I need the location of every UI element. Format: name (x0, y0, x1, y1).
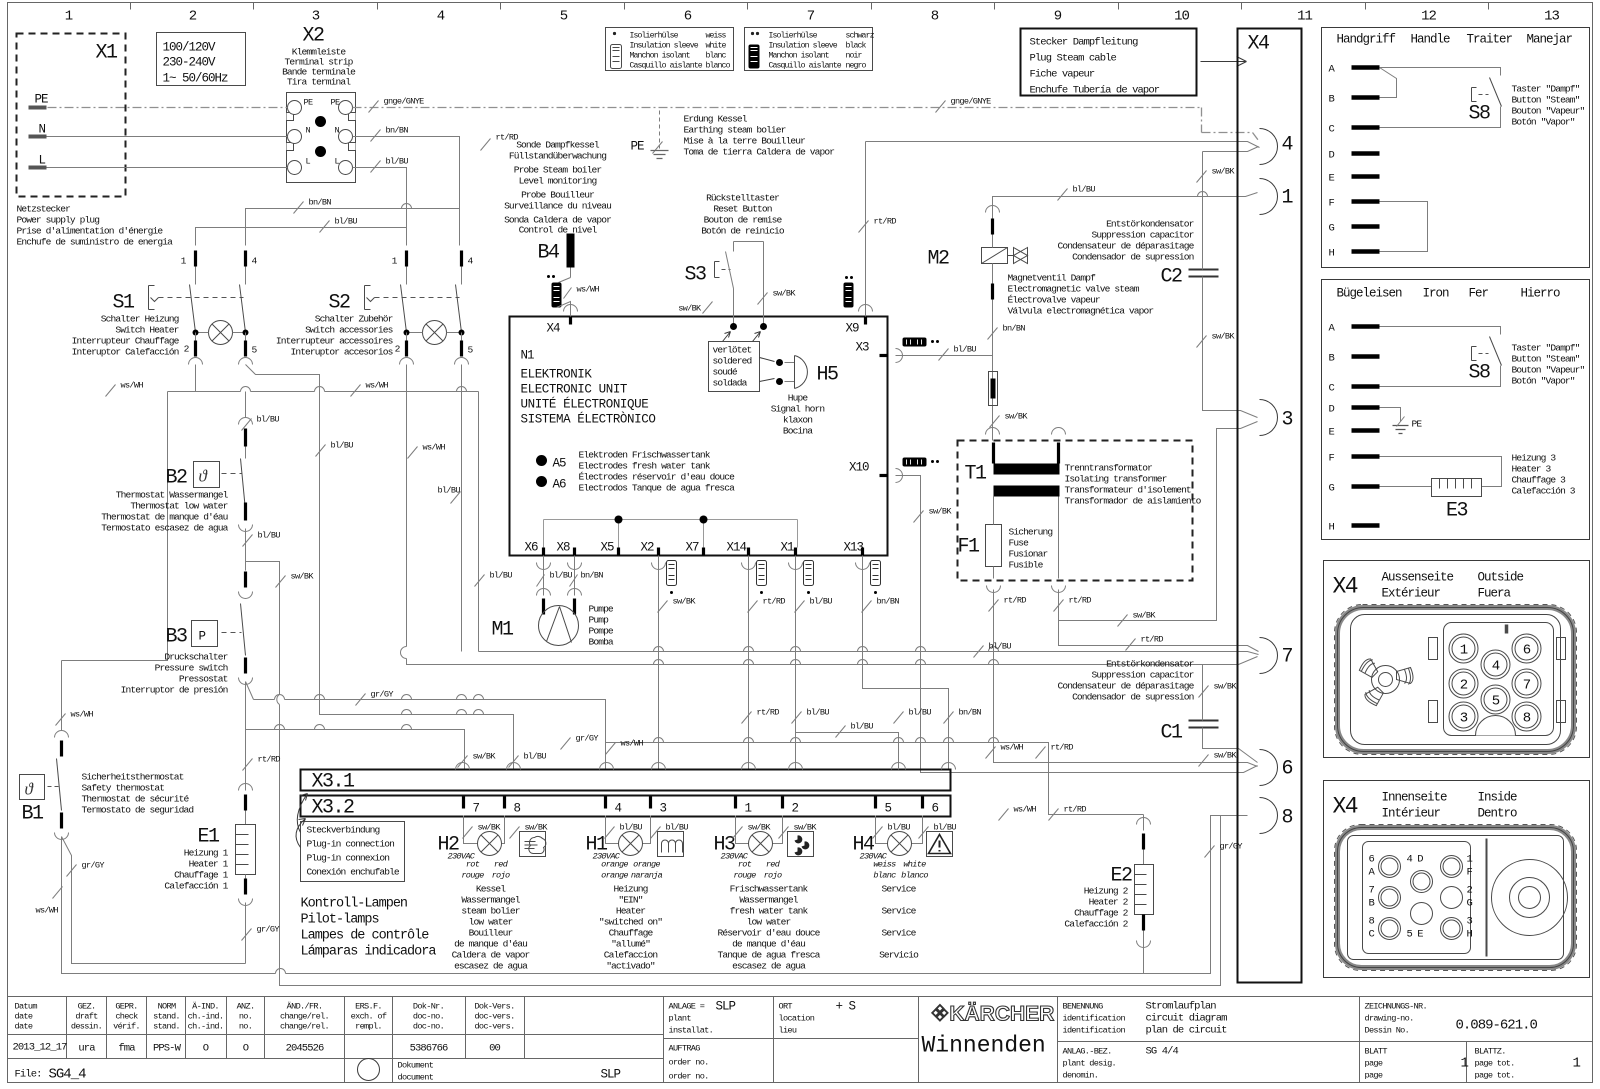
svg-text:gnge/GNYE: gnge/GNYE (384, 97, 425, 107)
svg-text:6: 6 (684, 9, 692, 25)
svg-text:white: white (903, 860, 926, 870)
wire gr/GY from B3 (246, 682, 1144, 815)
svg-text:Condensateur de déparasitage: Condensateur de déparasitage (1057, 681, 1194, 692)
svg-text:C: C (1369, 929, 1375, 941)
svg-text:gr/GY: gr/GY (576, 734, 599, 744)
pin 8 (1260, 798, 1278, 834)
svg-text:6: 6 (1282, 758, 1293, 781)
svg-text:Extérieur: Extérieur (1382, 587, 1441, 601)
wire S1 pin5 branch to X3.1 (246, 365, 514, 770)
svg-text:S1: S1 (113, 292, 136, 315)
svg-text:Fuse: Fuse (1009, 538, 1030, 549)
svg-text:lieu: lieu (779, 1026, 797, 1036)
svg-text:rojo: rojo (492, 871, 510, 881)
svg-text:"allumé": "allumé" (611, 939, 650, 950)
svg-text:E: E (1329, 427, 1335, 439)
svg-text:S2: S2 (329, 292, 351, 315)
wire N (bn/BN) (31, 136, 288, 138)
svg-text:sw/BK: sw/BK (748, 823, 772, 833)
svg-text:Aussenseite: Aussenseite (1382, 571, 1454, 585)
svg-text:weiss: weiss (706, 31, 727, 41)
svg-text:E3: E3 (1446, 500, 1468, 523)
svg-text:12: 12 (1421, 9, 1436, 25)
svg-text:Traiter: Traiter (1467, 33, 1513, 47)
wire M2 to T1 (bn/BN, sw/BK) (992, 264, 994, 441)
svg-text:blanc: blanc (706, 51, 727, 61)
legend insulation sleeve black (745, 28, 873, 71)
svg-text:Bocina: Bocina (783, 426, 813, 437)
svg-text:Manchon isolant: Manchon isolant (769, 51, 830, 61)
svg-text:ura: ura (78, 1043, 95, 1055)
svg-text:1: 1 (1461, 1056, 1469, 1072)
svg-text:5: 5 (885, 802, 892, 816)
svg-text:sw/BK: sw/BK (773, 289, 797, 299)
svg-text:ws/WH: ws/WH (423, 443, 446, 453)
svg-text:"activado": "activado" (606, 961, 655, 972)
svg-text:Entstörkondensator: Entstörkondensator (1106, 659, 1194, 670)
svg-text:Winnenden: Winnenden (922, 1033, 1046, 1059)
svg-text:N: N (39, 123, 46, 137)
pump M1 (544, 556, 575, 596)
wire X1 pin down (789, 563, 803, 570)
svg-text:Electromagnetic valve steam: Electromagnetic valve steam (1008, 284, 1140, 295)
svg-text:D: D (1329, 404, 1335, 416)
svg-text:Heater 3: Heater 3 (1512, 464, 1552, 475)
svg-text:Casquillo aislante: Casquillo aislante (630, 61, 703, 71)
svg-text:Level monitoring: Level monitoring (519, 176, 597, 187)
svg-text:Elektroden Frischwassertank: Elektroden Frischwassertank (579, 450, 711, 461)
svg-text:Service: Service (881, 884, 916, 895)
svg-text:ws/WH: ws/WH (121, 381, 144, 391)
svg-text:O: O (203, 1043, 209, 1055)
svg-text:AUFTRAG: AUFTRAG (669, 1044, 701, 1054)
svg-text:blanco: blanco (706, 61, 731, 71)
svg-text:bn/BN: bn/BN (1003, 324, 1026, 334)
svg-text:7: 7 (1369, 885, 1375, 897)
svg-text:E: E (1329, 173, 1335, 185)
wire T1 left out (rt/RD) to pin7 (1058, 497, 1060, 579)
svg-text:8: 8 (1369, 916, 1375, 928)
svg-text:sw/BK: sw/BK (1133, 611, 1157, 621)
svg-text:E1: E1 (197, 826, 220, 849)
svg-text:Outside: Outside (1478, 571, 1524, 585)
svg-text:X4: X4 (1248, 33, 1270, 56)
svg-text:Sicherung: Sicherung (1009, 527, 1053, 538)
svg-text:L: L (39, 154, 46, 168)
svg-text:bl/BU: bl/BU (438, 486, 461, 496)
svg-text:5386766: 5386766 (410, 1043, 448, 1055)
svg-text:ws/WH: ws/WH (71, 710, 94, 720)
svg-text:7: 7 (1523, 678, 1531, 694)
svg-text:Trenntransformator: Trenntransformator (1065, 463, 1153, 474)
svg-text:Button "Steam": Button "Steam" (1512, 95, 1580, 106)
svg-text:Condensador de supression: Condensador de supression (1072, 692, 1194, 703)
svg-text:Dessin No.: Dessin No. (1365, 1026, 1410, 1036)
svg-text:bl/BU: bl/BU (807, 708, 830, 718)
svg-text:NORM: NORM (158, 1002, 176, 1012)
svg-text:6: 6 (1523, 643, 1531, 659)
svg-text:doc-vers.: doc-vers. (474, 1012, 514, 1022)
svg-text:Bomba: Bomba (589, 637, 614, 648)
isolating transformer T1 (958, 441, 1193, 581)
svg-text:"switched on": "switched on" (599, 917, 662, 928)
svg-text:1: 1 (1460, 643, 1468, 659)
svg-text:Pumpe: Pumpe (589, 604, 614, 615)
wire X9 to pin4 (rt/RD) (866, 142, 1260, 317)
svg-text:sw/BK: sw/BK (1212, 332, 1236, 342)
svg-text:UNITÉ ÉLECTRONIQUE: UNITÉ ÉLECTRONIQUE (521, 397, 649, 412)
svg-text:rt/RD: rt/RD (1051, 743, 1074, 753)
svg-text:F: F (1329, 198, 1335, 210)
svg-text:M2: M2 (927, 248, 949, 271)
svg-text:Lámparas indicadora: Lámparas indicadora (301, 945, 437, 960)
svg-text:Calefacción 1: Calefacción 1 (164, 881, 228, 892)
svg-text:Pompe: Pompe (589, 626, 614, 637)
svg-text:Erdung Kessel: Erdung Kessel (684, 114, 748, 125)
svg-text:sw/BK: sw/BK (1212, 167, 1236, 177)
svg-text:ANLAGE =: ANLAGE = (669, 1002, 705, 1012)
svg-text:4: 4 (1492, 659, 1500, 675)
svg-text:PE: PE (331, 98, 340, 108)
svg-text:G: G (1329, 483, 1335, 495)
svg-text:fresh water tank: fresh water tank (730, 906, 809, 917)
svg-text:page tot.: page tot. (1475, 1071, 1515, 1081)
svg-text:B: B (1369, 898, 1375, 910)
svg-text:Calefaccion: Calefaccion (604, 950, 658, 961)
wire T1 right out (rt/RD) to pin7, sw/BK branch to pin3 (1059, 590, 1259, 652)
svg-text:M1: M1 (491, 619, 514, 642)
svg-text:bl/BU: bl/BU (386, 157, 409, 167)
svg-text:Interuptor accesorios: Interuptor accesorios (290, 347, 392, 358)
svg-text:Pump: Pump (589, 615, 610, 626)
svg-text:Innenseite: Innenseite (1382, 791, 1448, 805)
svg-text:Chauffage: Chauffage (609, 928, 654, 939)
svg-text:Servicio: Servicio (879, 950, 919, 961)
svg-text:ws/WH: ws/WH (1014, 805, 1037, 815)
svg-text:Tanque de agua fresca: Tanque de agua fresca (717, 950, 820, 961)
svg-text:N: N (306, 126, 311, 136)
svg-text:Plug-in connection: Plug-in connection (307, 839, 395, 850)
insulation sleeve on B4 wire (552, 283, 562, 308)
svg-text:vérif.: vérif. (113, 1022, 140, 1032)
svg-text:Fusible: Fusible (1009, 560, 1044, 571)
svg-text:soldada: soldada (713, 378, 748, 389)
svg-text:change/rel.: change/rel. (280, 1012, 329, 1022)
svg-text:Intérieur: Intérieur (1382, 807, 1441, 821)
pin 3 (1260, 400, 1278, 436)
svg-text:Dokument: Dokument (398, 1061, 434, 1071)
svg-text:gnge/GNYE: gnge/GNYE (951, 97, 992, 107)
svg-text:Thermostat de manque d'éau: Thermostat de manque d'éau (101, 512, 227, 523)
svg-text:Netzstecker: Netzstecker (17, 204, 71, 215)
svg-text:6: 6 (1369, 854, 1375, 866)
svg-text:8: 8 (514, 802, 521, 816)
svg-text:8: 8 (1523, 711, 1531, 727)
svg-text:B: B (1329, 353, 1335, 365)
svg-text:X13: X13 (844, 541, 864, 555)
plug steam cable callout box (1021, 29, 1197, 96)
svg-text:sw/BK: sw/BK (1214, 751, 1238, 761)
svg-text:C: C (1329, 124, 1335, 136)
svg-text:11: 11 (1297, 9, 1312, 25)
svg-text:Taster "Dampf": Taster "Dampf" (1512, 343, 1580, 354)
svg-text:X7: X7 (686, 541, 700, 555)
svg-text:Calefacción 2: Calefacción 2 (1064, 919, 1128, 930)
pin 7 (1260, 638, 1278, 674)
svg-text:page: page (1365, 1059, 1383, 1069)
svg-text:draft: draft (75, 1012, 98, 1022)
svg-text:3: 3 (1460, 711, 1468, 727)
wire sw/BK bypass B3 to X3.1 (246, 562, 1221, 986)
bayonet lug (1358, 657, 1413, 708)
svg-text:bl/BU: bl/BU (954, 345, 977, 355)
svg-text:rot: rot (738, 860, 752, 870)
wire X3 to M2 (bl/BU) (896, 355, 993, 357)
svg-text:Druckschalter: Druckschalter (164, 652, 227, 663)
svg-text:Switch accessories: Switch accessories (305, 325, 393, 336)
svg-text:File:: File: (15, 1069, 42, 1081)
svg-text:D: D (1329, 150, 1335, 162)
svg-text:check: check (115, 1012, 138, 1022)
svg-text:5: 5 (1492, 694, 1500, 710)
svg-text:Dok-Vers.: Dok-Vers. (474, 1002, 514, 1012)
svg-text:bl/BU: bl/BU (524, 752, 547, 762)
svg-text:Insulation sleeve: Insulation sleeve (769, 41, 838, 51)
svg-text:red: red (766, 860, 781, 870)
svg-text:X4: X4 (1333, 574, 1358, 600)
svg-text:naranja: naranja (631, 871, 663, 881)
svg-text:Botón de reinicio: Botón de reinicio (701, 226, 785, 237)
svg-text:Switch Heater: Switch Heater (115, 325, 178, 336)
svg-text:1: 1 (65, 9, 73, 25)
svg-text:230-240V: 230-240V (163, 56, 217, 70)
svg-text:sw/BK: sw/BK (1005, 412, 1029, 422)
svg-text:S8: S8 (1469, 103, 1491, 126)
svg-text:bn/BN: bn/BN (581, 571, 604, 581)
svg-text:sw/BK: sw/BK (291, 572, 315, 582)
svg-text:Condensateur de déparasitage: Condensateur de déparasitage (1057, 241, 1194, 252)
svg-text:sw/BK: sw/BK (473, 752, 497, 762)
svg-text:Entstörkondensator: Entstörkondensator (1106, 219, 1194, 230)
svg-text:ANLAG.-BEZ.: ANLAG.-BEZ. (1063, 1047, 1112, 1057)
svg-text:ERS.F.: ERS.F. (355, 1002, 382, 1012)
svg-text:Botón "Vapor": Botón "Vapor" (1512, 376, 1575, 387)
svg-text:sw/BK: sw/BK (673, 597, 697, 607)
svg-text:Bouton de remise: Bouton de remise (704, 215, 783, 226)
svg-text:Schalter Zubehör: Schalter Zubehör (315, 314, 393, 325)
svg-text:C1: C1 (1161, 722, 1184, 745)
svg-text:Reset Button: Reset Button (713, 204, 771, 215)
svg-text:Electrodos Tanque de agua fres: Electrodos Tanque de agua fresca (579, 483, 736, 494)
svg-text:page tot.: page tot. (1475, 1059, 1515, 1069)
svg-text:PE: PE (304, 98, 313, 108)
svg-text:rt/RD: rt/RD (1141, 635, 1164, 645)
svg-text:date: date (15, 1022, 33, 1032)
svg-text:Ä-IND.: Ä-IND. (192, 1002, 219, 1012)
svg-text:Pressure switch: Pressure switch (155, 663, 228, 674)
svg-text:Rückstelltaster: Rückstelltaster (706, 193, 779, 204)
wire X14 pin down (742, 563, 756, 570)
svg-text:13: 13 (1544, 9, 1559, 25)
svg-text:Conexión enchufable: Conexión enchufable (307, 867, 400, 878)
pin 6 (1260, 750, 1278, 786)
svg-text:ws/WH: ws/WH (621, 739, 644, 749)
svg-text:steam bolier: steam bolier (461, 906, 519, 917)
svg-text:Calefacción 3: Calefacción 3 (1512, 486, 1576, 497)
svg-text:no.: no. (239, 1012, 252, 1022)
svg-text:Magnetventil Dampf: Magnetventil Dampf (1008, 273, 1097, 284)
svg-text:location: location (779, 1014, 815, 1024)
svg-text:3: 3 (312, 9, 320, 25)
svg-text:Füllstandüberwachung: Füllstandüberwachung (509, 151, 606, 162)
svg-text:Service: Service (881, 928, 916, 939)
svg-text:4: 4 (437, 9, 445, 25)
svg-text:Heater 2: Heater 2 (1089, 897, 1129, 908)
S1 lamp (209, 321, 233, 345)
svg-text:Électrovalve vapeur: Électrovalve vapeur (1008, 295, 1100, 306)
plug X1 (17, 34, 126, 197)
svg-text:Probe Steam boiler: Probe Steam boiler (514, 165, 602, 176)
svg-text:❖KÄRCHER: ❖KÄRCHER (931, 1003, 1055, 1026)
svg-text:Heizung 1: Heizung 1 (184, 848, 229, 859)
svg-text:no.: no. (239, 1022, 252, 1032)
svg-text:sw/BK: sw/BK (478, 823, 502, 833)
svg-text:bl/BU: bl/BU (888, 823, 911, 833)
svg-text:escasez de agua: escasez de agua (454, 961, 528, 972)
svg-text:S8: S8 (1469, 362, 1491, 385)
svg-text:denomin.: denomin. (1063, 1071, 1099, 1081)
svg-text:3: 3 (1282, 409, 1293, 432)
svg-text:gr/GY: gr/GY (1220, 842, 1243, 852)
svg-text:X1: X1 (781, 541, 795, 555)
svg-text:Suppression capacitor: Suppression capacitor (1091, 230, 1193, 241)
wire S2 pin2 down (ws/WH) (407, 365, 1258, 665)
svg-text:orange: orange (633, 860, 660, 870)
svg-text:X14: X14 (727, 541, 747, 555)
svg-text:fma: fma (118, 1043, 135, 1055)
svg-text:Fusionar: Fusionar (1009, 549, 1048, 560)
svg-text:stand.: stand. (153, 1022, 180, 1032)
svg-text:Heizung: Heizung (613, 884, 647, 895)
svg-text:dessin.: dessin. (71, 1022, 102, 1032)
svg-text:Chauffage 3: Chauffage 3 (1512, 475, 1567, 486)
svg-text:schwarz: schwarz (846, 31, 875, 41)
svg-text:rt/RD: rt/RD (874, 217, 897, 227)
svg-text:doc-vers.: doc-vers. (474, 1022, 514, 1032)
svg-text:BLATT: BLATT (1365, 1047, 1388, 1057)
svg-text:rt/RD: rt/RD (1064, 805, 1087, 815)
svg-text:Inside: Inside (1478, 791, 1518, 805)
svg-text:plant desig.: plant desig. (1063, 1059, 1117, 1069)
svg-text:Isolierhülse: Isolierhülse (769, 31, 818, 41)
svg-text:B3: B3 (166, 626, 188, 649)
svg-text:L: L (335, 157, 340, 167)
svg-text:ELEKTRONIK: ELEKTRONIK (521, 368, 593, 382)
wire ws/WH B1 long bottom (62, 816, 1248, 974)
svg-text:rempl.: rempl. (355, 1022, 382, 1032)
svg-text:ws/WH: ws/WH (36, 906, 59, 916)
S8 handle button (1380, 68, 1501, 128)
svg-text:B: B (1329, 94, 1335, 106)
svg-text:rouge: rouge (733, 871, 756, 881)
svg-text:sw/BK: sw/BK (1214, 682, 1238, 692)
horn H5 (760, 358, 775, 382)
svg-text:Transformador de aislamiento: Transformador de aislamiento (1065, 496, 1202, 507)
svg-text:page: page (1365, 1071, 1383, 1081)
svg-text:Sonde Dampfkessel: Sonde Dampfkessel (516, 140, 600, 151)
svg-text:"EIN": "EIN" (618, 895, 642, 906)
svg-text:4: 4 (1282, 134, 1293, 157)
svg-text:1: 1 (1467, 854, 1473, 866)
svg-text:Botón "Vapor": Botón "Vapor" (1512, 117, 1575, 128)
svg-text:soudé: soudé (713, 367, 738, 378)
svg-text:B4: B4 (537, 242, 559, 265)
svg-text:bn/BN: bn/BN (386, 126, 409, 136)
svg-text:Plug Steam cable: Plug Steam cable (1030, 53, 1117, 65)
svg-text:weiss: weiss (873, 860, 896, 870)
svg-text:F: F (1329, 453, 1335, 465)
svg-text:X1: X1 (96, 42, 119, 65)
svg-text:Válvula electromagnética vapor: Válvula electromagnética vapor (1008, 306, 1154, 317)
svg-text:gr/GY: gr/GY (257, 925, 280, 935)
svg-text:Control de nivel: Control de nivel (519, 225, 598, 236)
svg-text:Wassermangel: Wassermangel (461, 895, 520, 906)
X3.2 pin ticks and numbers (464, 797, 923, 809)
svg-text:ch.-ind.: ch.-ind. (188, 1012, 224, 1022)
svg-text:ch.-ind.: ch.-ind. (188, 1022, 224, 1032)
svg-text:rojo: rojo (764, 871, 782, 881)
svg-text:de manque d'éau: de manque d'éau (732, 939, 805, 950)
legend insulation sleeve white (606, 28, 734, 71)
column numbers (65, 9, 1560, 25)
svg-text:rt/RD: rt/RD (757, 708, 780, 718)
svg-text:00: 00 (489, 1043, 500, 1055)
svg-text:X10: X10 (849, 461, 869, 475)
svg-text:L: L (306, 157, 311, 167)
svg-text:Kessel: Kessel (476, 884, 506, 895)
svg-text:Handle: Handle (1411, 33, 1451, 47)
ground PE iron (1380, 408, 1401, 422)
svg-text:Interrupteur accessoires: Interrupteur accessoires (276, 336, 393, 347)
svg-text:Heizung 2: Heizung 2 (1084, 886, 1129, 897)
svg-text:3: 3 (1467, 916, 1473, 928)
svg-text:ws/WH: ws/WH (1001, 743, 1024, 753)
wire L (bl/BU) (31, 167, 288, 169)
svg-text:white: white (706, 41, 727, 51)
svg-text:rt/RD: rt/RD (1004, 596, 1027, 606)
svg-text:Hierro: Hierro (1521, 287, 1561, 301)
svg-text:bl/BU: bl/BU (620, 823, 643, 833)
svg-text:Schalter Heizung: Schalter Heizung (101, 314, 179, 325)
svg-text:low water: low water (747, 917, 791, 928)
svg-text:rouge: rouge (461, 871, 484, 881)
svg-text:Thermostat low water: Thermostat low water (130, 501, 227, 512)
svg-text:X3.1: X3.1 (312, 771, 356, 794)
svg-text:Stecker Dampfleitung: Stecker Dampfleitung (1030, 37, 1139, 49)
wire X10 to pin6 (sw/BK) (896, 476, 1258, 773)
svg-text:Bouton "Vapeur": Bouton "Vapeur" (1512, 365, 1585, 376)
svg-text:Wassermangel: Wassermangel (739, 895, 798, 906)
svg-text:Bügeleisen: Bügeleisen (1337, 287, 1403, 301)
svg-text:Interruptor de presión: Interruptor de presión (121, 685, 228, 696)
svg-text:5 E: 5 E (1407, 929, 1424, 941)
svg-text:Frischwassertank: Frischwassertank (730, 884, 809, 895)
svg-text:verlötet: verlötet (713, 345, 752, 356)
svg-text:H: H (1467, 929, 1473, 941)
svg-text:Stromlaufplan: Stromlaufplan (1146, 1001, 1217, 1013)
svg-text:X2: X2 (303, 25, 325, 48)
svg-text:Chauffage 2: Chauffage 2 (1074, 908, 1129, 919)
